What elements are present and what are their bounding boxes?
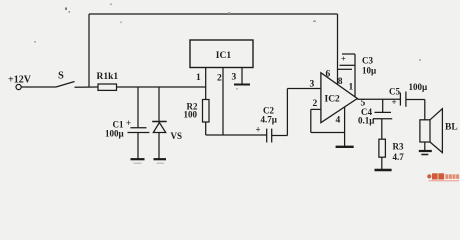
resistor R3 [381,119,383,140]
wire top rail [89,13,338,15]
svg-text:R1k1: R1k1 [97,72,119,82]
svg-text:C3: C3 [362,56,373,66]
svg-text:+12V: +12V [8,75,32,86]
capacitor C5 [399,93,401,106]
wire input to switch [21,86,56,88]
wire riser to top rail [88,14,90,87]
capacitor C1 [137,87,139,128]
ground under VS [154,158,167,160]
diode VS [158,87,160,123]
svg-text:+: + [341,54,346,64]
svg-text:IC2: IC2 [325,95,341,105]
svg-text:3: 3 [232,73,237,83]
watermark logo [427,173,459,181]
ground under R3 [375,169,392,171]
op-amp-supply IC1 [190,40,253,68]
svg-text:BL: BL [445,123,458,133]
resistor R2 [203,100,210,123]
svg-text:1: 1 [196,73,201,83]
resistor R1 [98,84,117,90]
svg-text:0.1µ: 0.1µ [358,116,375,126]
speaker BL [420,120,430,142]
svg-text:1: 1 [349,83,354,93]
svg-text:4.7µ: 4.7µ [261,115,278,125]
svg-text:+: + [126,118,131,128]
ground under C1 [131,158,145,160]
terminal +12V [16,84,21,89]
op-amp IC2 [321,73,357,123]
svg-text:100µ: 100µ [105,129,125,139]
pin 2 IC1 [222,68,224,136]
wire R2 bottom [205,122,207,135]
svg-text:C5: C5 [389,87,400,97]
svg-text:4: 4 [336,116,341,126]
svg-text:R3: R3 [393,142,404,152]
svg-text:S: S [58,71,64,82]
wire C5 to speaker [406,99,425,101]
ground under speaker [419,150,432,152]
pin 2 IC2 [311,108,321,110]
pin 4 IC2 [344,107,346,147]
wire C2 to IC2 pin3 [272,135,288,137]
wire speaker to ground [424,142,426,151]
svg-text:+: + [256,125,261,135]
pin 1 IC1 [205,68,207,100]
wire switch to R1 [75,86,99,88]
scan noise specks [34,4,421,90]
capacitor C4 [382,99,384,112]
capacitor C2 [266,129,268,143]
svg-text:8: 8 [338,77,343,87]
wire R3 to ground [381,157,383,169]
svg-text:4.7: 4.7 [393,152,405,162]
wire pin2 feedback to ground [310,109,312,132]
capacitor C3 [340,64,356,66]
svg-text:+: + [392,97,397,107]
pin 3 IC1 [241,68,243,85]
ground under IC2 pin 4 [336,146,354,148]
wire bottom rail to C2 [206,134,267,136]
svg-text:VS: VS [171,131,183,141]
svg-text:100µ: 100µ [409,82,429,92]
ground under IC1 pin 3 [234,84,250,86]
svg-text:6: 6 [326,70,331,80]
wire IC2 output pin 5 [357,98,400,100]
svg-text:3: 3 [310,80,315,90]
svg-text:2: 2 [217,74,222,84]
wire power drop from rail to IC2 pin 6 [337,14,339,85]
wire R1 to IC1 pin1 [117,86,206,88]
svg-text:IC1: IC1 [216,51,232,61]
switch S [56,82,75,88]
svg-text:100: 100 [184,110,198,120]
svg-text:10µ: 10µ [362,66,377,76]
svg-text:2: 2 [313,99,318,109]
